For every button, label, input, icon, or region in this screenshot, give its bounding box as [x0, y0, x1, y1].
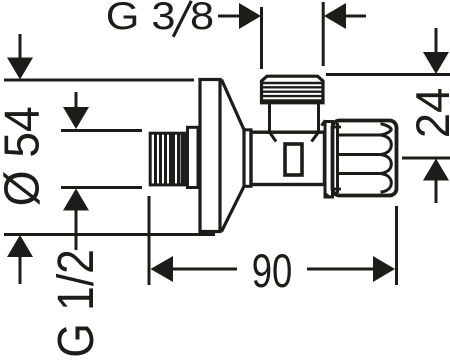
- valve: boss top chamfer: [322, 120, 326, 125]
- valve: knurl band line 2: [338, 153, 385, 156]
- valve: flange plate: [200, 80, 220, 232]
- svg-text:8: 8: [190, 0, 214, 38]
- dim 90 left extension line: [148, 196, 151, 285]
- label G 3/8 slash: [173, 1, 191, 37]
- dim G1/2 bottom arrow: [63, 189, 89, 251]
- dim G3/8 right arrow: [324, 3, 366, 29]
- dim 24 top extension line: [326, 73, 450, 76]
- valve: collar between body and knob: [325, 122, 333, 198]
- dim G3/8 left arrow: [218, 3, 261, 29]
- valve: knurl ridge cap 4: [381, 174, 392, 193]
- svg-text:Ø 54: Ø 54: [0, 106, 50, 206]
- valve: pipe thread hatch: [156, 133, 183, 185]
- dim 90 right arrowhead: [373, 256, 395, 282]
- valve: body top-right funnel chamfer: [312, 132, 319, 141]
- dim 24 bottom arrow: [423, 159, 449, 204]
- dim 24 top arrow: [423, 28, 449, 74]
- dim 90 line right part: [307, 268, 374, 271]
- valve: central window: [285, 144, 302, 175]
- valve: knob chamfer bottom line: [333, 188, 342, 191]
- valve: knurl band line 3: [338, 172, 385, 175]
- svg-text:G 1/2: G 1/2: [48, 249, 104, 358]
- valve: body: [251, 132, 325, 184]
- svg-text:24: 24: [406, 88, 450, 138]
- valve: knob outline: [333, 121, 397, 196]
- dim G1/2 bottom extension line: [61, 186, 142, 189]
- valve: body top-left funnel chamfer: [270, 132, 277, 141]
- valve: ring between cone and body: [244, 130, 251, 187]
- svg-text:90: 90: [252, 244, 293, 297]
- dim 24 bottom extension line: [402, 157, 450, 160]
- valve: cone: [222, 80, 245, 232]
- dim Ø54 top extension line: [4, 79, 194, 82]
- dim Ø54 bottom extension line: [4, 233, 215, 236]
- valve: boss bottom chamfer: [326, 194, 329, 196]
- valve: G3/8 thread block: [262, 76, 324, 103]
- valve: knurl band line 1: [338, 134, 385, 137]
- valve: neck right wall: [317, 103, 320, 132]
- dim Ø54 bottom arrow: [7, 235, 33, 284]
- valve: knob chamfer top line: [333, 126, 342, 129]
- svg-text:G 3: G 3: [106, 0, 176, 38]
- valve: knurl ridge cap 1: [381, 124, 392, 135]
- valve: knurl ridge cap 2: [381, 135, 392, 155]
- valve: G1/2 threaded pipe outline: [150, 133, 184, 185]
- dim 90 right extension line: [395, 206, 398, 285]
- dim 90 left arrowhead: [151, 256, 174, 282]
- dim 90 line left part: [172, 268, 237, 271]
- valve: neck left wall: [268, 103, 271, 132]
- dim G3/8 right extension line: [322, 2, 325, 66]
- valve: knurl ridge cap 3: [381, 155, 392, 174]
- valve: knob left face line: [336, 123, 339, 193]
- valve: nut step: [188, 127, 199, 187]
- valve: thread hatch lines: [262, 83, 323, 101]
- dim G1/2 top extension line: [61, 129, 142, 132]
- dim Ø54 top arrow: [7, 34, 33, 80]
- dim G3/8 left extension line: [260, 7, 263, 69]
- dim G1/2 top arrow: [63, 92, 89, 129]
